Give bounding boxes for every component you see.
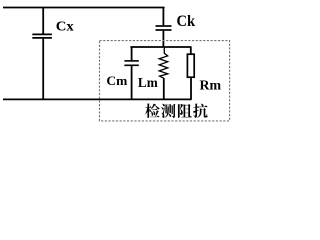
wire Rm branch lower: [190, 77, 192, 99]
capacitor Cx: [32, 33, 52, 35]
wire internal top bus: [130, 46, 191, 48]
wire Lm branch lower: [163, 78, 165, 99]
wire Cm branch upper: [131, 47, 133, 60]
circuit schematic: coupling-capacitor partial-discharge detection circuit: [0, 0, 236, 126]
wire Rm branch upper: [190, 47, 192, 54]
wire Cx branch lower: [42, 39, 44, 100]
resistor Rm: [187, 54, 194, 77]
wire Ck branch upper: [162, 8, 164, 26]
capacitor Ck: [156, 25, 172, 27]
label 检测阻抗 (detection impedance): [145, 104, 208, 118]
wire bottom bus: [3, 98, 192, 100]
capacitor Cm: [124, 60, 138, 62]
svg-text:Cx: Cx: [56, 20, 74, 35]
wire top bus: [3, 7, 165, 9]
inductor Lm: [159, 47, 168, 78]
wire Cm branch lower: [131, 66, 133, 99]
svg-text:Rm: Rm: [200, 78, 222, 93]
wire Cx branch upper: [42, 8, 44, 34]
dashed box detection impedance: [100, 41, 230, 121]
svg-text:Cm: Cm: [106, 73, 127, 88]
wire Ck to detection network: [162, 31, 164, 47]
svg-text:Ck: Ck: [177, 13, 196, 30]
svg-text:Lm: Lm: [138, 75, 158, 90]
